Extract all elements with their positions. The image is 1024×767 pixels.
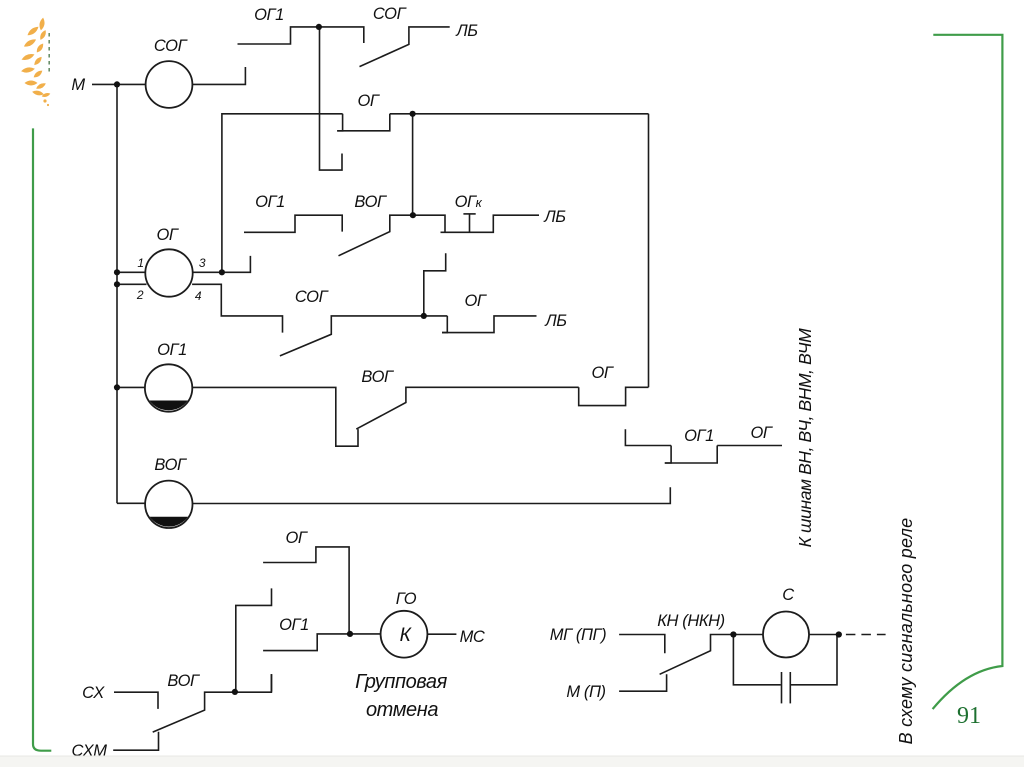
svg-text:отмена: отмена xyxy=(366,699,438,721)
svg-text:К: К xyxy=(400,625,413,646)
contact ВОГ bottom (blade) xyxy=(153,674,272,732)
node С coil left xyxy=(730,631,736,637)
wire coil ОГ1 to post row4 xyxy=(192,387,358,446)
svg-text:4: 4 xyxy=(195,289,202,303)
wire to coil С xyxy=(733,634,763,636)
wire M lead xyxy=(92,83,146,85)
wire dashed continuation xyxy=(846,634,886,636)
svg-text:В схему сигнального реле: В схему сигнального реле xyxy=(896,518,916,745)
svg-text:ЛБ: ЛБ xyxy=(455,22,478,40)
svg-text:ОГ: ОГ xyxy=(464,292,486,310)
svg-text:ОГ1: ОГ1 xyxy=(684,427,714,445)
svg-text:ОГ1: ОГ1 xyxy=(255,193,285,211)
wire coil СОГ to contact post xyxy=(192,67,245,84)
capacitor branch left xyxy=(733,635,780,685)
wire row2 junction down to row2.5 xyxy=(412,114,414,215)
svg-text:МС: МС xyxy=(460,628,485,646)
node row2.5 junction xyxy=(410,212,416,218)
contact КН (НКН) blade xyxy=(660,635,734,675)
svg-text:ВОГ: ВОГ xyxy=(361,368,394,386)
contact ОГ1 branch2 (blade) xyxy=(263,634,350,651)
wire pin2 xyxy=(117,283,147,285)
svg-text:ВОГ: ВОГ xyxy=(154,456,187,474)
coil К (ГО) xyxy=(381,611,428,658)
svg-text:ОГ1: ОГ1 xyxy=(279,616,309,634)
contact СОГ row3 (NC blade) xyxy=(280,316,447,356)
contact СОГ row1 (NC blade) xyxy=(360,27,450,67)
green frame top right xyxy=(933,35,1003,709)
svg-text:ОГ1: ОГ1 xyxy=(254,6,284,24)
node row3 junction xyxy=(421,313,427,319)
svg-text:С: С xyxy=(782,586,794,604)
svg-text:МГ (ПГ): МГ (ПГ) xyxy=(550,626,606,644)
green dashed stem xyxy=(48,33,50,72)
svg-text:М: М xyxy=(71,76,85,94)
node row2 junction xyxy=(410,111,416,117)
wire branch to К шинам xyxy=(717,445,782,447)
svg-text:Групповая: Групповая xyxy=(355,671,448,693)
svg-text:1: 1 xyxy=(137,256,143,270)
coil ВОГ (polarized) xyxy=(145,481,192,528)
wire row2 right xyxy=(390,113,649,115)
svg-text:СХ: СХ xyxy=(82,684,105,702)
contact ОГк T-mark xyxy=(463,213,475,215)
node M xyxy=(114,81,120,87)
contact ОГ row3 (bridge) xyxy=(442,316,447,333)
svg-text:СОГ: СОГ xyxy=(154,37,188,55)
svg-text:3: 3 xyxy=(199,256,206,270)
svg-text:ВОГ: ВОГ xyxy=(354,193,387,211)
contact ВОГ row4 (NC blade) xyxy=(356,387,578,429)
coil ОГ1 (polarized) xyxy=(145,364,192,411)
node pin3 junction xyxy=(219,269,225,275)
node row1 junction xyxy=(316,24,322,30)
wire row5 to post xyxy=(193,487,671,503)
svg-text:СОГ: СОГ xyxy=(373,5,407,23)
wire right vertical to row4 xyxy=(648,114,650,388)
node pin2 bus xyxy=(114,281,120,287)
wire pin1 xyxy=(117,271,145,273)
wire to coil ГО xyxy=(350,633,381,635)
wire bus dot to coil ОГ1 xyxy=(117,386,145,388)
contact ВОГ row2.5 (NC blade) xyxy=(339,215,446,256)
coil СОГ xyxy=(146,61,193,108)
node bus ОГ1 xyxy=(114,384,120,390)
svg-text:ОГ: ОГ xyxy=(591,364,613,382)
contact ОГ row4 (bridge) xyxy=(579,387,649,405)
wheat ornament xyxy=(21,17,51,106)
svg-text:ОГ: ОГ xyxy=(357,92,379,110)
node pin1 bus xyxy=(114,269,120,275)
wire pin4 jog to row3 xyxy=(192,284,282,332)
wire СХ lead xyxy=(114,692,158,709)
svg-text:ЛБ: ЛБ xyxy=(544,312,567,330)
svg-text:ОГ: ОГ xyxy=(750,424,772,442)
wire junction row1 down to row2 contact post xyxy=(320,27,343,170)
wire ОГк jog down to row3 xyxy=(424,253,446,316)
svg-text:ОГк: ОГк xyxy=(455,193,483,211)
wire МГ lead xyxy=(619,635,665,654)
capacitor C plates xyxy=(781,672,783,703)
contact ОГ1 row1 xyxy=(238,27,364,44)
coil С xyxy=(763,612,809,658)
wire row2 left with corner down to pin3 xyxy=(222,114,343,272)
capacitor branch right xyxy=(790,635,837,685)
wire branch post under row4 xyxy=(625,429,671,445)
svg-text:91: 91 xyxy=(957,703,981,729)
svg-text:К шинам ВН, ВЧ, ВНМ, ВЧМ: К шинам ВН, ВЧ, ВНМ, ВЧМ xyxy=(795,328,815,548)
node ГО row junction xyxy=(347,631,353,637)
svg-text:ГО: ГО xyxy=(396,590,417,608)
contact ОГ1 branch (bridge) xyxy=(665,446,671,464)
contact ОГ row2 (bridge) xyxy=(337,114,342,131)
svg-text:ВОГ: ВОГ xyxy=(167,672,200,690)
svg-text:ОГ1: ОГ1 xyxy=(157,341,187,359)
wire bus M vertical xyxy=(116,84,118,503)
contact ОГ1 row2.5 xyxy=(244,215,342,232)
svg-text:КН (НКН): КН (НКН) xyxy=(657,612,725,630)
svg-text:ОГ: ОГ xyxy=(285,529,307,547)
svg-text:М (П): М (П) xyxy=(566,683,605,701)
wire М(П) lead xyxy=(619,674,667,691)
green frame left xyxy=(33,128,51,750)
svg-text:ОГ: ОГ xyxy=(156,226,178,244)
svg-text:ЛБ: ЛБ xyxy=(543,208,566,226)
wire pin3 lead to post xyxy=(193,256,251,272)
bottom strip xyxy=(0,756,1024,767)
contact ОГ branch (blade) xyxy=(263,547,349,634)
contact ОГ1 branch2 post xyxy=(271,674,273,692)
wire coil К to МС xyxy=(427,633,456,635)
contact ОГк bridge xyxy=(441,215,540,232)
svg-text:2: 2 xyxy=(136,288,144,302)
wire Групповая branch riser xyxy=(236,588,272,691)
node СХ row junction xyxy=(232,689,238,695)
wire СХМ lead xyxy=(113,732,158,751)
coil ОГ with pins xyxy=(145,249,192,296)
wire bus corner to coil ВОГ xyxy=(117,502,145,504)
svg-text:СОГ: СОГ xyxy=(295,288,329,306)
wire coil С right xyxy=(809,634,839,636)
node С coil right xyxy=(836,631,842,637)
